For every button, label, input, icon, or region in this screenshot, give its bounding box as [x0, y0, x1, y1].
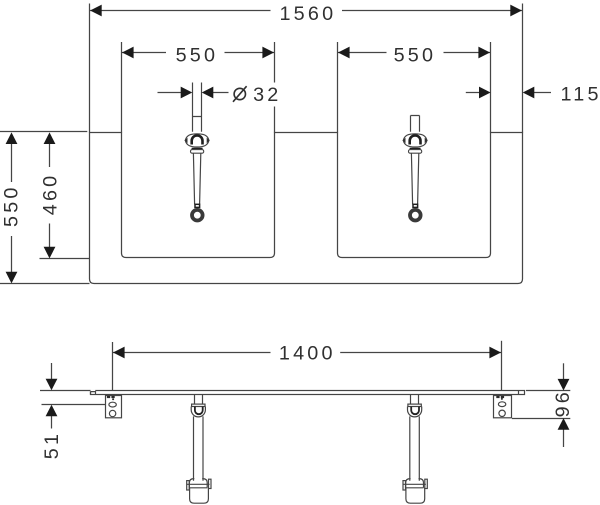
svg-text:51: 51	[41, 431, 63, 459]
svg-text:550: 550	[176, 44, 219, 66]
svg-text:96: 96	[552, 389, 574, 417]
svg-text:115: 115	[561, 84, 600, 106]
svg-text:32: 32	[253, 84, 281, 106]
svg-text:550: 550	[1, 184, 23, 227]
svg-text:1400: 1400	[279, 343, 336, 365]
svg-text:1560: 1560	[279, 3, 336, 25]
svg-text:460: 460	[39, 173, 61, 216]
svg-text:550: 550	[394, 44, 437, 66]
